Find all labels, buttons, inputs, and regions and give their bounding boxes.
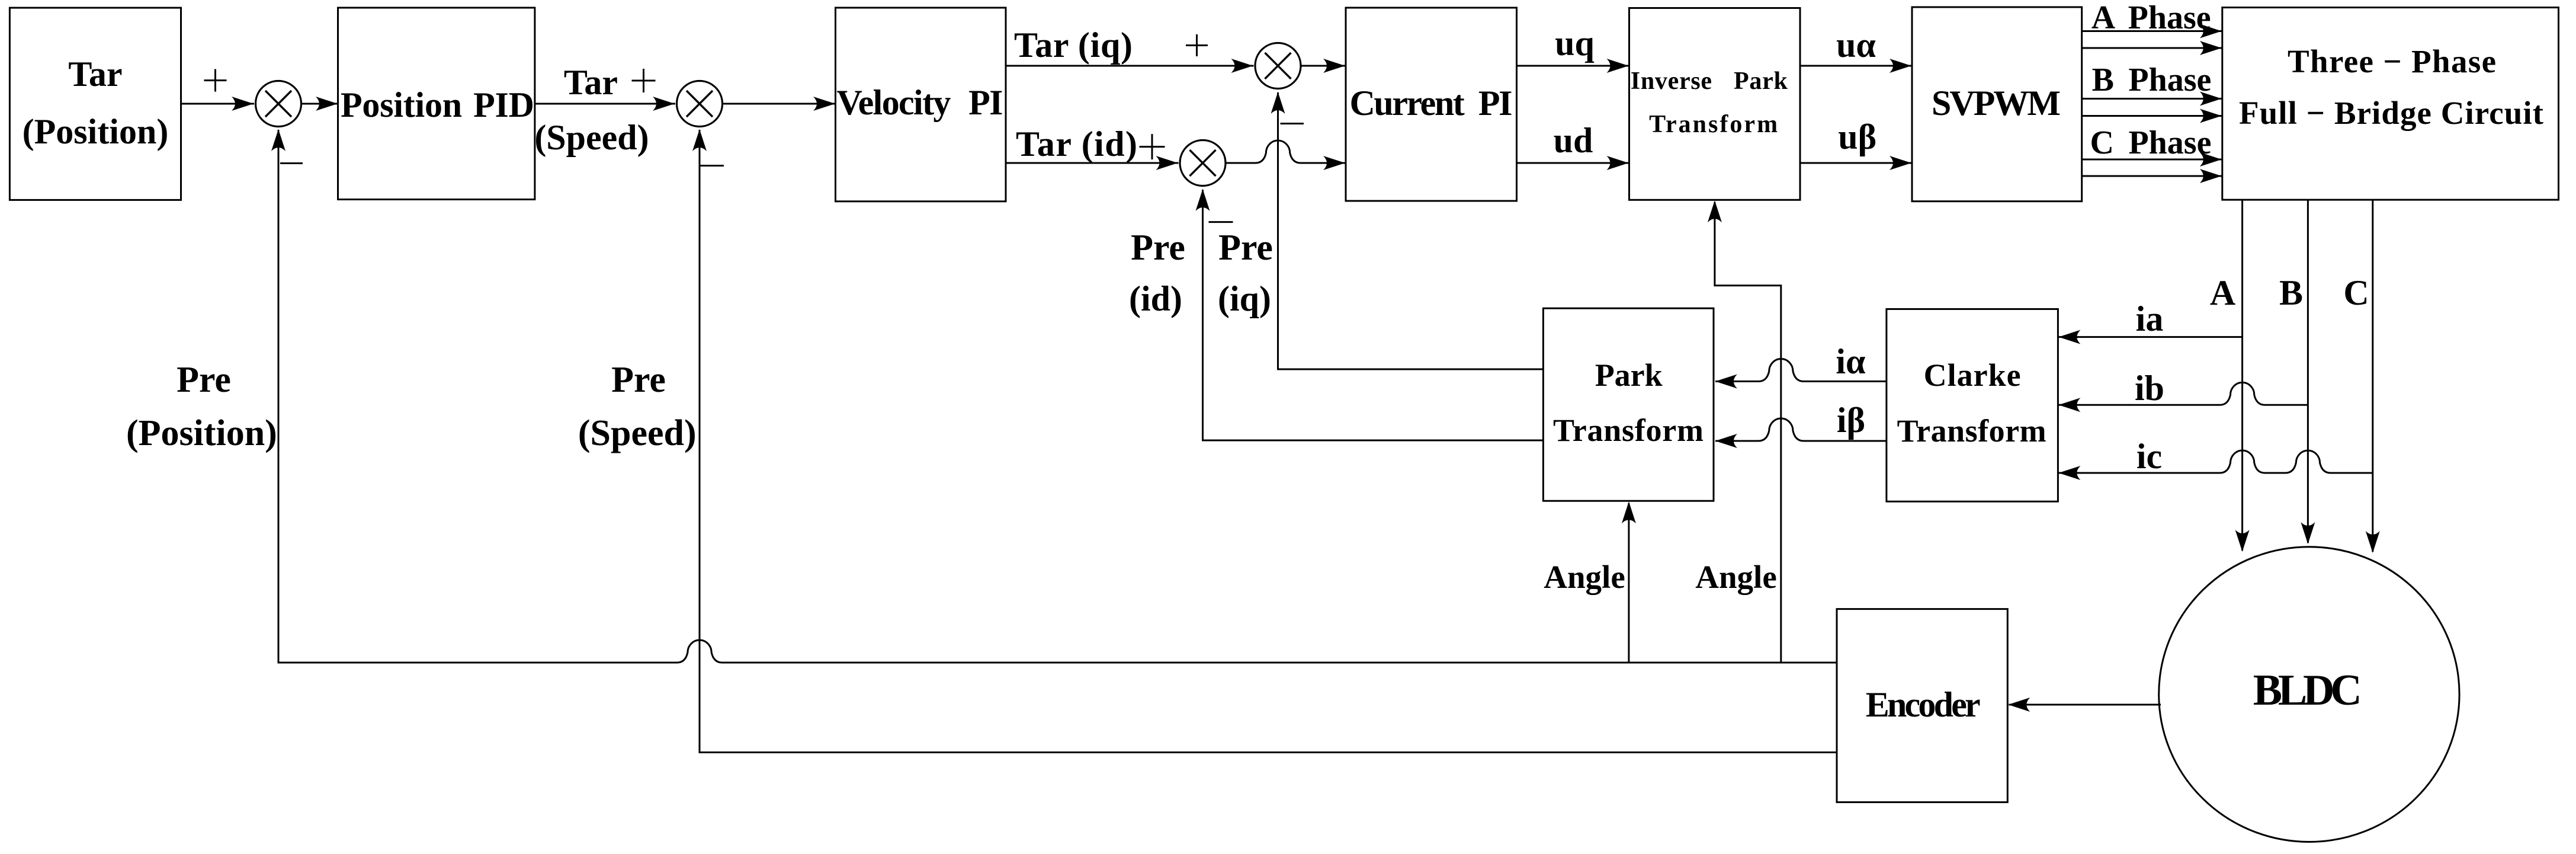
svg-text:Three − Phase: Three − Phase bbox=[2288, 43, 2496, 79]
svg-text:SVPWM: SVPWM bbox=[1932, 84, 2061, 123]
svg-text:C: C bbox=[2343, 273, 2369, 312]
svg-text:Tar: Tar bbox=[564, 63, 618, 102]
svg-text:iα: iα bbox=[1836, 342, 1865, 381]
svg-text:(Position): (Position) bbox=[23, 112, 169, 151]
svg-text:Transform: Transform bbox=[1897, 413, 2046, 449]
svg-text:Transform: Transform bbox=[1553, 412, 1704, 448]
svg-text:Position PID: Position PID bbox=[341, 85, 534, 124]
svg-text:ud: ud bbox=[1554, 121, 1593, 160]
svg-text:(id): (id) bbox=[1129, 279, 1182, 318]
svg-text:Transform: Transform bbox=[1649, 111, 1778, 138]
svg-text:A Phase: A Phase bbox=[2091, 0, 2211, 36]
svg-text:C Phase: C Phase bbox=[2090, 124, 2212, 161]
svg-text:uq: uq bbox=[1555, 24, 1595, 63]
svg-text:Inverse Park: Inverse Park bbox=[1631, 68, 1788, 95]
svg-text:Current PI: Current PI bbox=[1350, 84, 1513, 123]
svg-text:Tar (id): Tar (id) bbox=[1016, 124, 1137, 164]
svg-text:Full − Bridge Circuit: Full − Bridge Circuit bbox=[2239, 95, 2544, 131]
svg-text:ic: ic bbox=[2136, 437, 2162, 476]
svg-text:iβ: iβ bbox=[1837, 401, 1865, 440]
svg-text:Pre: Pre bbox=[611, 360, 666, 400]
svg-text:Park: Park bbox=[1595, 357, 1663, 393]
svg-text:Encoder: Encoder bbox=[1866, 685, 1981, 724]
svg-text:Angle: Angle bbox=[1695, 559, 1777, 595]
svg-text:Pre: Pre bbox=[177, 360, 231, 400]
svg-text:(Speed): (Speed) bbox=[578, 413, 697, 453]
svg-text:B Phase: B Phase bbox=[2092, 62, 2212, 98]
svg-text:BLDC: BLDC bbox=[2253, 666, 2362, 715]
svg-text:uβ: uβ bbox=[1838, 117, 1876, 156]
svg-text:Clarke: Clarke bbox=[1924, 357, 2021, 393]
svg-text:Tar: Tar bbox=[68, 55, 122, 94]
svg-text:Angle: Angle bbox=[1544, 559, 1625, 595]
svg-text:B: B bbox=[2279, 273, 2303, 312]
svg-text:Velocity PI: Velocity PI bbox=[837, 83, 1003, 122]
svg-text:ia: ia bbox=[2136, 299, 2164, 338]
svg-text:(iq): (iq) bbox=[1218, 279, 1271, 318]
svg-text:Pre: Pre bbox=[1218, 228, 1273, 268]
svg-text:(Position): (Position) bbox=[126, 413, 277, 453]
svg-text:Tar (iq): Tar (iq) bbox=[1014, 25, 1133, 65]
svg-text:Pre: Pre bbox=[1131, 228, 1185, 268]
svg-text:uα: uα bbox=[1836, 25, 1876, 65]
svg-text:ib: ib bbox=[2135, 369, 2164, 408]
svg-text:A: A bbox=[2210, 273, 2235, 312]
svg-text:(Speed): (Speed) bbox=[534, 118, 649, 157]
